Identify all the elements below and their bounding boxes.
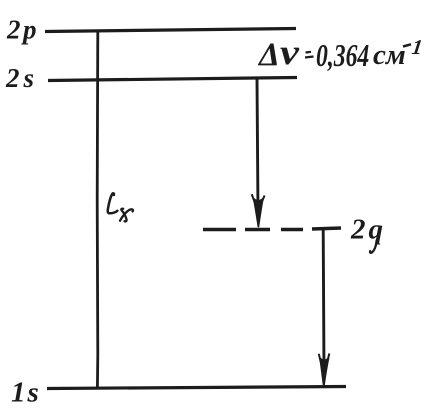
arrowhead 2q to 1s bbox=[319, 354, 330, 387]
level line 2s bbox=[48, 78, 297, 81]
dashed level 2q bbox=[203, 228, 341, 230]
level line 1s bbox=[47, 387, 346, 389]
transition arrow 2q to 1s shaft bbox=[322, 230, 326, 372]
transition arrow 2s to 2q shaft bbox=[257, 79, 258, 212]
transition line 2p to 1s bbox=[96, 30, 99, 388]
svg-text:2s: 2s bbox=[5, 63, 38, 93]
level line 2p bbox=[45, 29, 296, 32]
svg-text:0,364: 0,364 bbox=[316, 39, 369, 74]
formula value 0,364 bbox=[316, 39, 369, 74]
formula exponent -1 bbox=[403, 35, 424, 59]
label 2s bbox=[5, 63, 38, 93]
svg-text:1: 1 bbox=[410, 35, 424, 59]
formula equals sign bbox=[305, 52, 314, 58]
label 1s bbox=[11, 377, 41, 409]
svg-text:ν: ν bbox=[280, 32, 299, 72]
formula delta nu bbox=[257, 37, 280, 73]
svg-text:1s: 1s bbox=[11, 377, 41, 409]
svg-text:см: см bbox=[373, 39, 406, 71]
label 2q bbox=[350, 214, 386, 253]
formula unit cm bbox=[373, 39, 406, 71]
svg-text:2q: 2q bbox=[350, 214, 386, 246]
svg-text:Δ: Δ bbox=[257, 37, 280, 73]
arrowhead 2s to 2q bbox=[252, 194, 265, 226]
label 2p bbox=[6, 15, 39, 45]
svg-text:2p: 2p bbox=[6, 15, 39, 45]
label L alpha bbox=[108, 193, 133, 221]
formula nu bbox=[280, 32, 299, 72]
